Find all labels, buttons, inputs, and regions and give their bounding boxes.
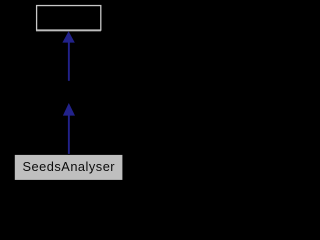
- inheritance arrowhead to hidden middle node: [63, 103, 75, 116]
- base-class node bottom edge: [36, 30, 101, 33]
- label SeedsAnalyser: [23, 159, 116, 174]
- inheritance arrowhead to base class: [62, 31, 74, 42]
- wire lower edge line: [68, 115, 70, 156]
- inheritance graph for class SeedsAnalyser: [0, 0, 137, 187]
- base-class node (empty box): [37, 6, 101, 31]
- wire upper edge line: [68, 42, 70, 81]
- svg-text:SeedsAnalyser: SeedsAnalyser: [23, 159, 116, 174]
- node SeedsAnalyser: [14, 154, 123, 180]
